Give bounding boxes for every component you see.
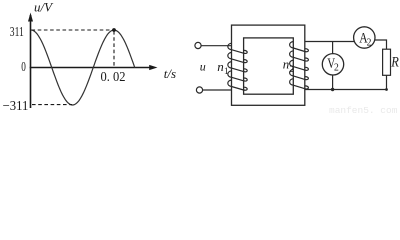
wire resistor bottom — [386, 75, 388, 89]
svg-text:t/s: t/s — [164, 66, 176, 81]
dashed line at -311 — [32, 104, 72, 106]
peak dot — [112, 28, 116, 32]
dashed vertical at peak t=0.02 — [113, 31, 115, 67]
junction dot — [331, 88, 334, 91]
svg-text:1: 1 — [224, 66, 229, 76]
secondary coil n2 — [290, 42, 309, 89]
voltmeter V2 — [322, 54, 343, 75]
transformer outer core box — [232, 25, 305, 105]
svg-text:2: 2 — [334, 63, 339, 74]
svg-text:u/V: u/V — [34, 0, 54, 15]
svg-text:−311: −311 — [3, 99, 29, 114]
dashed line at +311 — [32, 29, 114, 31]
svg-text:n: n — [283, 57, 290, 72]
svg-text:0: 0 — [21, 60, 26, 75]
y-axis — [30, 15, 32, 108]
sine curve u(t) — [31, 30, 135, 105]
wire voltmeter to bottom wire — [332, 75, 334, 90]
t-axis arrowhead — [149, 65, 157, 70]
transformer inner core box — [244, 38, 294, 94]
svg-text:manfen5. com: manfen5. com — [329, 105, 398, 114]
svg-text:311: 311 — [10, 25, 24, 40]
t-axis — [30, 67, 151, 69]
wire from top terminal to primary — [201, 45, 231, 47]
svg-text:R: R — [390, 54, 398, 70]
input terminal bottom — [196, 87, 202, 93]
svg-text:2: 2 — [289, 64, 294, 74]
wire from bottom terminal to primary — [203, 89, 232, 91]
wire ammeter to resistor top — [375, 40, 387, 49]
wire down to voltmeter — [332, 42, 334, 54]
bottom return wire — [305, 89, 387, 91]
resistor R — [383, 49, 391, 75]
svg-text:2: 2 — [367, 37, 372, 48]
input terminal top — [195, 42, 201, 48]
ammeter A2 — [354, 27, 375, 48]
svg-text:n: n — [217, 59, 224, 74]
primary coil n1 — [228, 43, 247, 90]
svg-text:0. 02: 0. 02 — [101, 70, 126, 85]
secondary top wire — [305, 41, 355, 43]
svg-text:u: u — [200, 59, 206, 73]
y-axis arrowhead — [28, 13, 33, 22]
corner dot — [385, 88, 388, 91]
